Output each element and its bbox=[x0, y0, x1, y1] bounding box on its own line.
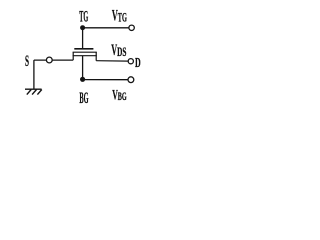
label VDS bbox=[111, 42, 126, 59]
terminal VBG open circle bbox=[128, 77, 134, 83]
transistor Q1 channel box bottom line bbox=[73, 55, 97, 57]
wire TG vertical lead down to top gate bar bbox=[82, 28, 84, 49]
transistor Q1 drain-side vertical lead bbox=[95, 52, 97, 61]
wire source corner down to ground bbox=[33, 60, 35, 89]
svg-text:TG: TG bbox=[79, 9, 88, 26]
wire source wire from corner to transistor bbox=[34, 59, 73, 61]
svg-text:S: S bbox=[25, 53, 29, 70]
transistor Q1 channel box top line bbox=[73, 51, 97, 53]
terminal VTG open circle bbox=[129, 25, 134, 30]
ground symbol hatch strokes bbox=[27, 90, 42, 95]
wire BG node to VBG terminal bbox=[83, 79, 128, 81]
svg-text:DS: DS bbox=[117, 45, 126, 59]
label VBG bbox=[112, 88, 127, 104]
wire TG node to VTG terminal bbox=[83, 27, 129, 29]
node BG junction dot bbox=[80, 77, 85, 82]
transistor Q1 top gate bar bbox=[74, 48, 93, 50]
terminal D open circle bbox=[128, 59, 133, 64]
svg-text:BG: BG bbox=[79, 90, 88, 107]
label VTG bbox=[112, 8, 127, 25]
wire drain wire to D terminal bbox=[96, 60, 128, 62]
terminal S open circle bbox=[46, 57, 52, 63]
wire BG vertical lead from channel down to BG node bbox=[82, 56, 84, 80]
svg-text:BG: BG bbox=[118, 89, 127, 103]
svg-text:D: D bbox=[135, 56, 141, 71]
ground symbol bar bbox=[25, 88, 42, 90]
transistor Q1 source-side vertical lead bbox=[72, 52, 74, 60]
node TG junction dot bbox=[80, 25, 85, 30]
svg-text:TG: TG bbox=[118, 10, 127, 24]
